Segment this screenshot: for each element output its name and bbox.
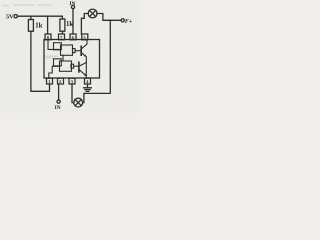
terminal IN top — [71, 5, 74, 8]
svg-text:IN: IN — [55, 105, 61, 111]
wire Q1 emitter down to pin4 — [85, 57, 87, 78]
pin 8 — [45, 34, 51, 40]
wire lamp right to F+ — [97, 14, 121, 21]
resistor R2 — [60, 19, 65, 31]
wire R2 to pin7 — [61, 31, 63, 34]
wire 5V rail — [17, 16, 62, 19]
wire R1 bottom to pin1 — [31, 31, 50, 91]
wire pin2 to IN bottom — [58, 84, 60, 100]
terminal 5V — [14, 15, 17, 18]
wire IN to pin6 — [72, 9, 74, 34]
resistor R1 — [30, 16, 32, 19]
pin 4 — [85, 78, 91, 84]
svg-text:F+: F+ — [125, 18, 133, 25]
pin 5 — [82, 34, 88, 40]
terminal F+ — [121, 19, 124, 22]
terminal IN bottom — [57, 100, 60, 103]
pin 6 — [70, 34, 76, 40]
wire gate1 to Q1 base — [75, 50, 81, 52]
wire lamp bottom left to pin3 — [72, 84, 74, 103]
wire pin8 to gate1 — [48, 40, 61, 50]
ground — [87, 84, 89, 88]
wire gate2 to Q2 base — [74, 65, 79, 67]
gate G2 — [54, 59, 62, 66]
transistor Q2 — [78, 62, 80, 72]
pin 1 — [47, 78, 53, 84]
svg-text:IN: IN — [69, 1, 75, 7]
lamp top — [88, 9, 97, 18]
svg-text:1k: 1k — [35, 22, 42, 29]
pin 3 — [69, 78, 75, 84]
wire gate1 to gate2 — [62, 55, 64, 61]
transistor Q1 — [80, 46, 82, 55]
wire lamp left to pin5 — [81, 14, 88, 35]
IC U1 outline — [44, 40, 100, 79]
svg-text:1k: 1k — [66, 21, 73, 28]
bleed-through smudge inside IC — [45, 56, 58, 59]
gate G1 — [54, 43, 62, 50]
pin 2 — [58, 78, 64, 84]
bleed-through smudge top — [2, 4, 52, 6]
lamp bottom — [74, 98, 83, 107]
pin 7 — [59, 34, 65, 40]
wire gate2 input to pin1 — [49, 66, 60, 78]
wire F+ branch down right side — [83, 20, 111, 102]
wire rail to pin8 — [47, 16, 49, 34]
svg-text:5V: 5V — [6, 14, 14, 21]
